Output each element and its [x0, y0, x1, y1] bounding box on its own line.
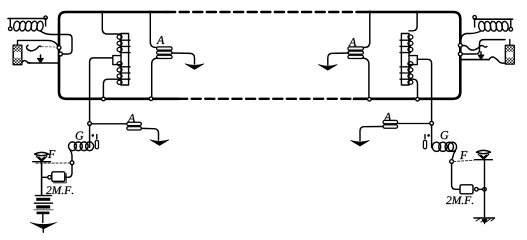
wire: capacitor A right upper bottom lead to main line — [363, 58, 369, 97]
receiver right terminal post — [45, 19, 47, 26]
wire: staple loop right station (transmitter wire to lower junction) — [462, 40, 505, 54]
ground arrow (left upper) — [185, 64, 204, 70]
wire: capacitor A right lower to ground arrow — [360, 127, 383, 141]
capacitor A (right lower): label A — [383, 113, 391, 121]
fuse F device (right): cap — [477, 150, 491, 153]
transmitter top checkered section — [14, 46, 22, 52]
ground arrow (left battery earth) — [30, 222, 56, 229]
wire: transmitter top stub (right) — [509, 40, 511, 46]
label G (right) — [441, 131, 449, 139]
lower hook contact bar (right station) — [462, 59, 490, 61]
ground arrow (right upper) — [319, 65, 338, 71]
wire: capacitor A left lower to ground arrow — [141, 128, 158, 140]
lower hook contact bar — [28, 62, 58, 64]
condenser right lead circle (right) — [475, 188, 479, 192]
induction coil centre-tap bracket — [113, 56, 121, 65]
wire: F junction down to condenser 2MF left end (right) — [452, 163, 460, 189]
wire: induction coil top lead to top line — [102, 12, 121, 34]
induction coil left-side loops — [117, 35, 122, 39]
wire: top line to capacitor A left upper — [150, 12, 160, 48]
fuse F base line — [33, 161, 51, 163]
junction circle on main line (left cap bottom lead) — [149, 97, 153, 101]
fuse F device funnel — [37, 156, 47, 161]
capacitor A (left lower): label A — [127, 114, 135, 122]
wire: G-feed vertical continues to retardation coil G (left) — [89, 125, 91, 148]
fuse F device funnel (right) — [478, 154, 488, 159]
wire: receiver exit to staple — [41, 31, 59, 35]
battery (left): alternating cell plates — [35, 195, 51, 197]
wire: G-feed vertical continues to retardation coil G (right) — [431, 125, 433, 148]
wire: capacitor A right upper to ground arrow — [328, 53, 349, 65]
receiver coil winding loops (right station) — [478, 21, 486, 32]
plug / heat coil element (right) — [424, 135, 426, 139]
capacitor A (left upper): label A — [156, 36, 164, 44]
junction dot beside plug (left) — [92, 134, 95, 137]
dotted wire: F base to junction circle — [36, 162, 70, 164]
wire: induction coil top lead to top line (right) — [409, 12, 417, 31]
hook switch arrow (solid, pointing down onto bar) — [40, 55, 42, 59]
transmitter top checkered section (right) — [506, 46, 514, 52]
upper hook switch contact — [27, 45, 41, 51]
transmitter left station (carbon box) — [13, 45, 22, 64]
condenser left lead circle — [48, 176, 52, 180]
wire: G coil right end down to F junction circle (right) — [452, 151, 456, 160]
junction dot on top line (right coil lead) — [416, 11, 419, 14]
junction circle below main line on G-feed vertical (right) — [430, 121, 434, 125]
wire: junction to capacitor A right lower — [397, 123, 430, 125]
junction circle on main line (right cap bottom lead) — [368, 98, 372, 102]
junction circle F node (left) — [70, 161, 74, 165]
junction circle node on left vertical (lower, to staple) — [59, 52, 63, 56]
junction circle node on right vertical (lower) — [458, 52, 462, 56]
induction coil centre-tap bracket (right) — [409, 56, 417, 65]
wire: bottom main line, left solid section — [66, 98, 178, 101]
receiver left terminal post — [474, 19, 476, 27]
earth ground symbol (right) — [474, 217, 495, 219]
receiver left terminal circle (right station) — [473, 16, 476, 19]
induction coil segment bars (right) — [400, 40, 411, 79]
fuse F base line (right) — [475, 159, 493, 161]
wire: induction coil bottom lead down to main line — [103, 79, 120, 97]
capacitor A right lower: plates — [383, 120, 398, 123]
junction circle node on right vertical (upper) — [458, 43, 462, 47]
ground arrow (left lower) — [150, 140, 169, 146]
junction dot on top line (left cap lead) — [149, 11, 152, 14]
upper hook faint open-contact dashes — [41, 46, 55, 48]
wire: bracket tap to G-feed vertical — [90, 58, 113, 123]
plug / heat coil element (left) — [96, 135, 98, 139]
label F (right) — [460, 151, 467, 159]
wire: condenser to F stem (right) — [478, 188, 482, 190]
induction coil segment bars — [120, 40, 130, 79]
wire: top line conductor dashed middle section — [166, 11, 368, 13]
receiver right terminal circle — [44, 16, 47, 19]
capacitor A left upper: plates — [157, 47, 173, 50]
dotted wire: F base to junction circle (right) — [454, 160, 474, 161]
receiver right terminal post (right station) — [510, 19, 512, 27]
junction circle node on left vertical (upper, to receiver branch) — [57, 46, 61, 50]
wire: bottom main line dashed middle section — [178, 98, 356, 100]
wire: battery to ground arrow — [42, 214, 44, 222]
wire: top line to capacitor A right upper — [360, 12, 370, 48]
induction coil right-side loops — [408, 35, 413, 39]
capacitor A right upper: plates — [348, 47, 364, 50]
wire: bottom main line, right solid section — [354, 98, 453, 101]
retardation coil G (right) — [432, 142, 456, 151]
receiver right terminal circle (right station) — [509, 28, 513, 32]
label 2 M.F. (left) — [46, 186, 73, 194]
junction dot on top line (right cap lead) — [368, 11, 371, 14]
lower hook S-curve to transmitter (right station) — [489, 57, 506, 63]
label G (left) — [76, 132, 84, 140]
wire: staple loop from receiver wire down to hook junction — [58, 35, 72, 55]
lower hook S-curve from transmitter — [22, 61, 31, 63]
wire: G coil left end down to F junction circle — [71, 151, 73, 161]
wire: capacitor A left upper to ground arrow — [172, 53, 195, 64]
receiver left terminal circle — [9, 27, 13, 31]
capacitor A (right upper): label A — [348, 38, 356, 46]
transmitter right station (carbon box) — [505, 45, 514, 64]
wire: F stem down to earth (right) — [484, 160, 486, 218]
upper hook switch contact (right station) — [462, 45, 487, 50]
label F (left) — [48, 150, 55, 158]
junction circle below main line on G-feed vertical (left) — [88, 122, 92, 126]
wire: bracket tap to G-feed vertical (right) — [417, 59, 431, 121]
induction coil left station: core — [121, 34, 129, 86]
wire: F stem down to battery — [41, 162, 43, 195]
junction circle on main line (left coil bottom lead) — [102, 97, 106, 101]
retardation coil G (left) — [69, 142, 94, 151]
wire: top line conductor, left solid section with corner into left vertical — [59, 12, 166, 99]
junction circle on main line (right coil bottom lead) — [416, 98, 420, 102]
induction coil right station: core — [401, 34, 409, 86]
wire: induction coil bottom lead down to main line (right) — [410, 79, 418, 97]
transmitter bottom checkered section — [14, 58, 22, 64]
ground arrow (right lower) — [351, 141, 370, 147]
label 2 M.F. (right) — [446, 196, 473, 204]
wire: F junction down to condenser 2MF right end — [65, 165, 72, 178]
wire: receiver exit to upper hook junction (right station) — [461, 32, 480, 41]
junction dot on top line (left coil lead) — [101, 11, 104, 14]
junction circle F node (right) — [450, 160, 454, 164]
wire: capacitor A left upper bottom lead to main line — [152, 58, 158, 97]
receiver coil winding loops — [13, 21, 21, 32]
hook switch arrow (right station) — [480, 52, 482, 56]
fuse F device (left): cap — [35, 152, 49, 155]
wire: top line conductor, right solid section with corner into right vertical — [366, 12, 460, 99]
wire: transmitter top to upper hook junction — [18, 40, 59, 46]
capacitor A left lower: plates — [127, 122, 142, 125]
condenser 2 M.F. (left) body — [52, 172, 65, 182]
receiver coil left station: magnet bar — [8, 18, 46, 20]
receiver coil right station: magnet bar — [474, 18, 513, 20]
transmitter bottom checkered section (right) — [506, 58, 514, 64]
receiver left terminal post — [9, 19, 11, 28]
wire: condenser left lead to battery stem — [42, 176, 48, 178]
condenser 2 M.F. (right) body — [460, 185, 473, 194]
junction circle on F stem (right) — [483, 188, 487, 192]
wire: junction to capacitor A left lower — [92, 123, 128, 125]
junction dot beside plug (right) — [427, 134, 430, 137]
